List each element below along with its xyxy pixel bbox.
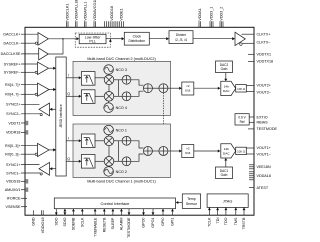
bottom power pin VDDIO18	[41, 210, 45, 233]
wire VOUT2-	[246, 91, 254, 93]
wire TESTMODE right	[248, 128, 254, 130]
adder sum1	[143, 147, 152, 156]
svg-text:8/16: 8/16	[185, 151, 191, 155]
right pin VEE18N	[249, 165, 271, 169]
pin AMUX0/1	[5, 188, 28, 193]
pin SYNC2-	[6, 112, 42, 116]
box interp2	[182, 82, 194, 95]
svg-text:NCO 4: NCO 4	[116, 106, 127, 110]
svg-text:NCO 1: NCO 1	[116, 128, 127, 132]
bottom pin GPO1	[151, 209, 155, 228]
top power group VDD3_1	[210, 7, 214, 28]
wire duc1 out	[168, 150, 182, 153]
wire sum1 to final1	[152, 150, 159, 152]
svg-text:TESTMODE: TESTMODE	[127, 217, 131, 238]
NCO4	[104, 103, 127, 113]
svg-text:RESETB: RESETB	[103, 217, 107, 232]
svg-text:0.9 V: 0.9 V	[238, 116, 246, 120]
svg-text:VSENSE: VSENSE	[6, 205, 22, 209]
wire dac1gain up	[224, 158, 227, 167]
bottom pin TCLK	[208, 207, 212, 227]
PLL bypass dashed box	[75, 33, 110, 47]
wire jesd to sync1	[50, 167, 56, 170]
top power pins group2 VDDAPLL18	[75, 0, 79, 27]
svg-text:GND: GND	[31, 217, 35, 226]
svg-text:Temp: Temp	[187, 197, 196, 201]
wire VOUT1+	[246, 147, 254, 149]
svg-text:VDDIO18: VDDIO18	[41, 218, 45, 234]
wire CLKTX+	[242, 33, 255, 35]
svg-text:VOUT1–: VOUT1–	[257, 152, 272, 156]
wire sysref to jesd	[49, 67, 57, 70]
wire duc2 out	[168, 87, 182, 90]
svg-text:JESD Interface: JESD Interface	[59, 104, 63, 128]
wire RBIAS	[249, 121, 254, 123]
wire sum2 to final2	[152, 87, 159, 89]
svg-text:AMUX0/1: AMUX0/1	[5, 188, 21, 192]
svg-text:×2: ×2	[186, 147, 190, 151]
adder I2	[122, 75, 131, 84]
buffer SYNC1	[39, 162, 50, 175]
bottom pin SLEEP	[111, 209, 115, 230]
bottom pin TRSTB	[242, 207, 246, 229]
wire clock-mux	[48, 39, 63, 54]
bottom pin GPO0	[142, 209, 146, 228]
svg-text:ALARM: ALARM	[120, 218, 124, 231]
pin RX[0..3]+	[5, 144, 37, 148]
NCO1	[104, 125, 127, 135]
chip outline	[25, 27, 254, 215]
buffer DACCLKSE	[39, 48, 49, 60]
mixer Q1	[104, 157, 114, 167]
right pin ATEST	[249, 186, 269, 190]
top power group VDD3_2	[220, 7, 224, 28]
svg-text:14b: 14b	[224, 85, 229, 89]
svg-text:Divider: Divider	[176, 33, 187, 37]
svg-text:VDD3_1: VDD3_1	[210, 7, 214, 21]
pin SYNC1-	[6, 171, 42, 175]
filter I1	[81, 134, 95, 148]
svg-text:SYNC2–: SYNC2–	[6, 112, 21, 116]
top power pins group1 VDDCLK1	[66, 4, 70, 28]
svg-text:GPO0: GPO0	[142, 218, 146, 228]
svg-text:Q: Q	[67, 157, 70, 161]
top power group VDDA1	[198, 8, 202, 27]
pin SYNC1+	[6, 163, 39, 167]
box Control Interface	[54, 198, 175, 209]
box Divider	[169, 31, 193, 44]
svg-text:I: I	[68, 74, 69, 78]
wire pll to clockdist	[106, 37, 124, 40]
NCO3	[104, 65, 127, 75]
wire VOUT1-	[246, 153, 254, 155]
svg-text:VDDAPLL18: VDDAPLL18	[75, 0, 79, 21]
svg-text:SDO: SDO	[55, 217, 59, 225]
pin SYSREF+	[4, 62, 38, 66]
pin SYSREF-	[4, 71, 38, 75]
gray box DUC2	[73, 61, 171, 115]
NCO2	[104, 167, 127, 177]
svg-text:VDDTX1: VDDTX1	[257, 53, 272, 57]
top power dense group VDDD18	[105, 6, 124, 27]
svg-text:CLKTX+: CLKTX+	[257, 33, 271, 37]
svg-text:GPI1: GPI1	[171, 218, 175, 226]
top power pins group4 VDDAVCO18	[93, 0, 97, 27]
svg-text:JTAG: JTAG	[223, 198, 233, 203]
svg-text:SYNC1+: SYNC1+	[6, 163, 20, 167]
right pin VDDTX1	[248, 53, 271, 57]
svg-text:Multi-band DUC Channel 2 (mult: Multi-band DUC Channel 2 (multi-DUC2)	[87, 57, 156, 61]
pin RX[4..7]+	[5, 83, 37, 87]
mixer I1	[104, 136, 114, 146]
svg-text:RX[4..7]–: RX[4..7]–	[5, 93, 21, 97]
svg-text:SYNC1–: SYNC1–	[6, 171, 21, 175]
svg-text:/2, /3, /4: /2, /3, /4	[175, 38, 187, 42]
adder Q2	[122, 92, 131, 101]
buffer RX03	[38, 143, 50, 156]
resistor box 100ohm top	[236, 85, 247, 92]
filter Q1	[81, 155, 95, 169]
adder final2	[159, 84, 168, 93]
box PLL	[79, 34, 106, 43]
pin IFORCE	[7, 197, 27, 201]
svg-text:RX[0..3]+: RX[0..3]+	[5, 144, 20, 148]
wire CLKTX-	[242, 42, 254, 44]
arrow temp to control	[176, 201, 183, 204]
svg-text:VEE18N: VEE18N	[257, 165, 271, 169]
svg-text:DACCLKSE: DACCLKSE	[1, 52, 21, 56]
svg-text:DAC2: DAC2	[220, 63, 229, 67]
svg-text:VDDS18: VDDS18	[6, 180, 20, 184]
buffer SYSREF	[38, 62, 49, 75]
svg-text:VDDAVCO18: VDDAVCO18	[93, 0, 97, 21]
svg-text:TRSTB: TRSTB	[242, 217, 246, 230]
svg-text:GPO1: GPO1	[151, 218, 155, 228]
buffer RX47	[38, 83, 50, 96]
wire VOUT2+	[246, 85, 254, 87]
box JTAG	[207, 194, 248, 208]
svg-text:NCO 3: NCO 3	[116, 68, 127, 72]
box DAC2 Gain	[216, 61, 233, 73]
mixer I2	[104, 75, 114, 85]
wire rx03 to jesd	[49, 148, 56, 151]
svg-text:TMS: TMS	[234, 217, 238, 225]
svg-text:RX[4..7]+: RX[4..7]+	[5, 83, 20, 87]
bottom pin RESETB	[103, 209, 107, 233]
svg-text:DAC: DAC	[223, 152, 230, 156]
gray box DUC1	[73, 124, 171, 178]
wire dacclk to pll	[48, 38, 76, 40]
right pin VDDA18	[249, 172, 271, 180]
svg-text:TESTMODE: TESTMODE	[257, 127, 278, 131]
mixer Q2	[104, 92, 114, 102]
svg-text:CLKTX–: CLKTX–	[257, 41, 272, 45]
amp CLKTX	[235, 32, 245, 45]
svg-text:SLEEP: SLEEP	[111, 217, 115, 229]
wire Q to DUC2	[66, 92, 81, 98]
svg-text:Gain: Gain	[221, 67, 228, 71]
svg-text:VOUT2+: VOUT2+	[257, 84, 271, 88]
wire divider to clktx amp	[193, 37, 235, 40]
svg-text:GPI0: GPI0	[161, 218, 165, 226]
svg-text:TDO: TDO	[224, 217, 228, 225]
arrow into PLL	[76, 37, 79, 40]
box interp1	[182, 145, 194, 158]
box DAC1 Gain	[216, 167, 233, 179]
svg-text:Ref: Ref	[240, 120, 245, 124]
bottom pin TMS	[234, 207, 238, 225]
wire interp2 to dac0	[194, 87, 221, 90]
svg-text:Clock: Clock	[133, 34, 142, 38]
svg-text:RBIAS: RBIAS	[257, 121, 269, 125]
svg-text:VDDR18: VDDR18	[6, 131, 21, 135]
svg-text:100 Ω: 100 Ω	[237, 150, 246, 154]
right pin VDDTX18	[248, 60, 273, 64]
svg-text:SCLK: SCLK	[81, 217, 85, 227]
pin DACCLKSE	[1, 52, 39, 56]
svg-text:SYNC2+: SYNC2+	[6, 103, 20, 107]
svg-text:RX[0..3]–: RX[0..3]–	[5, 153, 21, 157]
wire Q to DUC1	[66, 157, 81, 163]
bottom pin TESTMODE	[127, 209, 131, 238]
box Temp Sensor	[182, 194, 200, 209]
svg-text:NCO 2: NCO 2	[116, 170, 127, 174]
wire I to DUC2	[66, 74, 81, 80]
box 0.9V Ref	[235, 114, 249, 125]
box Clock Distribution	[124, 32, 149, 45]
pin VDDT1	[8, 121, 27, 126]
buffer SYNC2	[39, 103, 50, 116]
pin RX[4..7]-	[5, 93, 37, 97]
svg-text:DACCLK–: DACCLK–	[3, 41, 21, 45]
bottom pin TDI	[216, 207, 220, 223]
box JESD Interface	[56, 57, 66, 176]
wire EXTIO	[249, 116, 254, 118]
bottom pin SDENB	[72, 209, 76, 231]
svg-text:SDENB: SDENB	[72, 217, 76, 230]
wire I to DUC1	[66, 137, 81, 143]
bottom pin TXENABLE	[93, 209, 97, 237]
svg-text:VDDT1: VDDT1	[8, 121, 20, 125]
svg-text:SDIO: SDIO	[63, 217, 67, 226]
duc1 wires	[95, 135, 143, 167]
bottom pin SDIO	[63, 209, 67, 227]
bottom pin TDO	[224, 207, 228, 225]
svg-text:I: I	[68, 137, 69, 141]
pin DACCLK-	[3, 41, 37, 45]
svg-text:×2: ×2	[186, 84, 190, 88]
svg-text:PLL: PLL	[89, 39, 96, 43]
svg-text:EXTIO: EXTIO	[257, 115, 268, 119]
dac DAC1	[221, 144, 236, 158]
pin VDDS18	[6, 179, 28, 184]
svg-text:DACCLK+: DACCLK+	[3, 33, 20, 37]
svg-text:ATEST: ATEST	[257, 186, 269, 190]
wire clockdist to divider	[149, 37, 169, 40]
svg-text:VDDE1: VDDE1	[120, 8, 124, 20]
adder final1	[159, 147, 168, 156]
buffer DACCLK	[38, 33, 48, 46]
top power pins group3 VDDAPLL1	[84, 2, 88, 28]
adder I1	[122, 136, 131, 145]
filter I2	[81, 72, 95, 86]
svg-text:TCLK: TCLK	[208, 217, 212, 227]
dac DAC0	[221, 81, 236, 95]
adder sum2	[143, 84, 152, 93]
filter Q2	[81, 90, 95, 104]
svg-text:VDDAPLL1: VDDAPLL1	[84, 2, 88, 21]
svg-text:VOUT2–: VOUT2–	[257, 91, 272, 95]
svg-text:VDDA18: VDDA18	[257, 174, 271, 178]
wire dac2gain down	[224, 73, 227, 82]
wire rx47 to jesd	[49, 88, 56, 91]
dashed crossband wire	[162, 93, 165, 147]
bottom pin ALARM	[120, 209, 124, 231]
bottom pin GPI0	[161, 209, 165, 226]
svg-text:Control Interface: Control Interface	[101, 201, 130, 206]
resistor box 100ohm bottom	[236, 147, 247, 154]
svg-text:IFORCE: IFORCE	[7, 197, 21, 201]
svg-text:Gain: Gain	[221, 173, 228, 177]
pin RX[0..3]-	[5, 153, 37, 157]
wire jesd to sync2	[50, 108, 56, 111]
svg-text:VDDA1: VDDA1	[198, 8, 202, 20]
svg-text:TXENABLE: TXENABLE	[93, 217, 97, 237]
svg-text:14b: 14b	[224, 147, 229, 151]
svg-text:SYSREF+: SYSREF+	[4, 62, 21, 66]
svg-text:VDDD18: VDDD18	[110, 6, 114, 21]
svg-text:TDI: TDI	[216, 218, 220, 224]
svg-text:VOUT1+: VOUT1+	[257, 146, 271, 150]
svg-text:VDDCLK1: VDDCLK1	[66, 4, 70, 21]
bottom pin SDO	[55, 209, 59, 226]
svg-text:Distribution: Distribution	[129, 39, 146, 43]
svg-text:Q: Q	[67, 92, 70, 96]
svg-text:100 Ω: 100 Ω	[237, 87, 246, 91]
adder Q1	[122, 157, 131, 166]
pin VSENSE	[6, 205, 27, 209]
svg-text:DAC: DAC	[223, 89, 230, 93]
wire interp1 to dac1	[194, 150, 221, 153]
bottom power pin GND	[31, 210, 35, 226]
pin DACCLK+	[3, 33, 38, 37]
svg-text:8/16: 8/16	[185, 89, 191, 93]
bottom pin SCLK	[81, 209, 85, 227]
svg-text:Sensor: Sensor	[186, 202, 198, 206]
duc2 wires	[95, 74, 143, 103]
svg-text:DAC1: DAC1	[220, 169, 229, 173]
svg-text:VDDTX18: VDDTX18	[257, 60, 274, 64]
pin VDDR18	[6, 130, 28, 135]
svg-text:Multi-band DUC Channel 1 (mult: Multi-band DUC Channel 1 (multi-DUC1)	[87, 179, 156, 183]
svg-text:SYSREF–: SYSREF–	[4, 71, 22, 75]
bottom pin GPI1	[171, 209, 175, 226]
pin SYNC2+	[6, 103, 39, 107]
svg-text:VDD3_2: VDD3_2	[220, 7, 224, 21]
